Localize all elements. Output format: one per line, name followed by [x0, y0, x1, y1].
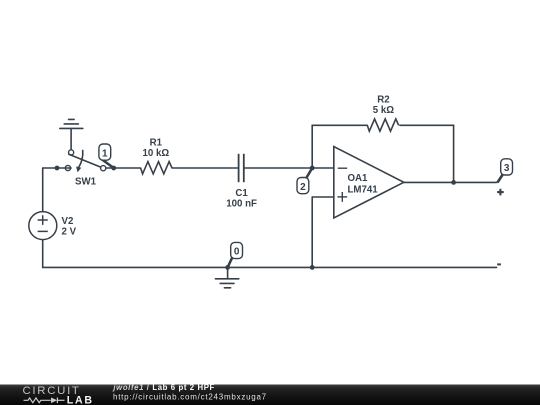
op-amp plus symbol (non-inverting input)	[337, 196, 347, 198]
output + polarity mark (node 3)	[497, 189, 504, 196]
wire: plus input down to bottom rail	[311, 197, 313, 267]
node 2 flag	[297, 168, 312, 194]
SW1 actuation arc	[79, 150, 83, 167]
wire: switch output to R1	[106, 167, 140, 169]
wire: input row left segment to switch common	[43, 167, 71, 169]
svg-text:R2: R2	[377, 95, 389, 106]
svg-text:SW1: SW1	[75, 177, 97, 188]
junction dot left of SW1	[55, 166, 60, 171]
node 3 flag	[498, 159, 513, 183]
ground bar 2	[64, 123, 78, 125]
svg-text:http://circuitlab.com/ct243mbx: http://circuitlab.com/ct243mbxzuga7	[113, 393, 267, 402]
node 1 flag	[99, 144, 114, 168]
ground bar 1	[215, 278, 238, 280]
svg-text:1: 1	[102, 148, 108, 159]
node 1 flag leg	[102, 160, 114, 169]
wire: V2 top to input row corner	[42, 168, 44, 212]
wire: C1 to op-amp minus input	[245, 167, 334, 169]
svg-text:10 kΩ: 10 kΩ	[142, 148, 169, 159]
V2 plus symbol	[38, 219, 48, 221]
op-amp OA1	[334, 147, 404, 219]
op-amp minus symbol (inverting input)	[338, 167, 347, 169]
capacitor C1	[239, 154, 244, 182]
svg-text:V2: V2	[62, 216, 74, 227]
C1 right plate	[243, 154, 245, 182]
junction dot right of SW1 (node 1)	[111, 166, 116, 171]
svg-text:LM741: LM741	[348, 185, 379, 196]
CircuitLab logo	[23, 385, 94, 405]
svg-text:0: 0	[234, 247, 240, 258]
resistor R2	[367, 119, 398, 131]
footer bar	[0, 385, 540, 405]
wire: feedback right vertical down to output	[453, 125, 455, 182]
wire: op-amp output to terminal +	[404, 181, 497, 183]
ground (top, above SW1)	[60, 119, 83, 149]
node 3 flag leg	[498, 174, 504, 183]
ground bar 3	[69, 118, 75, 120]
V2 circle body	[29, 212, 57, 240]
SW1 terminal circle (throw to node 1, right)	[101, 166, 106, 171]
node 0 flag leg	[228, 257, 233, 267]
SW1 blade	[69, 154, 101, 167]
SW1 terminal circle (throw to ground, top)	[69, 150, 74, 155]
svg-text:R1: R1	[150, 138, 163, 149]
svg-text:jwolfe1 / Lab 6 pt 2 HPF: jwolfe1 / Lab 6 pt 2 HPF	[112, 383, 215, 392]
voltage source V2	[29, 212, 77, 240]
wire: feedback row left of R2	[312, 124, 367, 126]
svg-text:3: 3	[504, 163, 510, 174]
resistor R1	[141, 162, 172, 174]
node 2 flag box	[297, 178, 309, 194]
switch SW1	[65, 150, 105, 172]
ground (bottom, node 0)	[215, 267, 238, 287]
svg-text:OA1: OA1	[348, 173, 369, 184]
node 2 flag leg	[306, 168, 312, 179]
wire: V2 bottom down to rail	[42, 240, 44, 268]
ground bar 1	[60, 127, 83, 129]
svg-text:100 nF: 100 nF	[226, 199, 257, 210]
wire: feedback row right of R2	[400, 124, 454, 126]
OA1 triangle body	[334, 147, 404, 219]
ground stem	[227, 267, 229, 278]
svg-text:LAB: LAB	[67, 394, 94, 405]
wire: bottom rail	[43, 266, 497, 268]
junction dot output/feedback	[451, 180, 456, 185]
output - polarity mark (bottom rail)	[497, 263, 501, 265]
ground bar 2	[220, 282, 234, 284]
junction dot node 2	[310, 166, 315, 171]
node 0 flag	[228, 242, 243, 267]
SW1 actuation arrowhead	[76, 166, 81, 172]
node 3 flag box	[501, 159, 513, 175]
wire: op-amp plus input stub	[312, 196, 334, 198]
node 0 flag box	[231, 242, 243, 258]
ground bar 3	[224, 287, 230, 289]
junction dot plus rail	[310, 265, 315, 270]
junction dot ground rail	[225, 265, 230, 270]
wire: R1 to C1	[172, 167, 238, 169]
svg-text:5 kΩ: 5 kΩ	[373, 105, 394, 116]
V2 minus symbol	[38, 230, 48, 232]
svg-text:2 V: 2 V	[62, 227, 77, 238]
SW1 terminal circle (common, left)	[65, 165, 70, 170]
C1 left plate	[238, 154, 240, 182]
svg-text:2: 2	[300, 182, 306, 193]
svg-text:C1: C1	[235, 188, 248, 199]
wire: node2 junction up to feedback row	[311, 125, 313, 168]
ground stem	[70, 128, 72, 149]
node 1 flag box	[99, 144, 111, 160]
